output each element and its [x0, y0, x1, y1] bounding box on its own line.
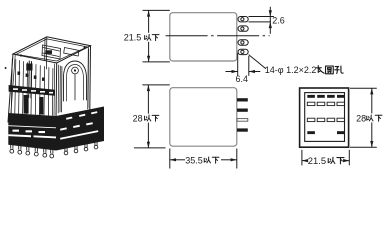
mid comb band (front face) — [9, 85, 55, 96]
pushbutton rod — [29, 61, 32, 98]
right face slanted label — [64, 48, 79, 57]
right face coil verticals — [60, 66, 62, 112]
dimension 6.4 (terminal length) — [226, 53, 261, 76]
svg-text:2.6: 2.6 — [272, 16, 285, 26]
svg-text:21.5: 21.5 — [308, 155, 326, 166]
top face detail cluster — [42, 45, 61, 59]
case front corner edge — [55, 63, 58, 118]
top view body — [170, 13, 237, 61]
moving block bars — [24, 95, 29, 114]
front view body — [170, 88, 237, 147]
base white separation lines and slots — [8, 111, 98, 139]
top view pins (4 stadium terminals) — [238, 17, 248, 22]
bottom pins right row — [65, 148, 67, 151]
center line (dash-dot) — [166, 35, 270, 37]
bottom view outer rect — [300, 88, 349, 147]
bottom view inner rect — [305, 93, 345, 142]
right face armature arch — [64, 61, 87, 101]
dimension 28以下 (bottom view height, right side) — [350, 88, 377, 147]
dimension 2.6 (terminal height) — [249, 7, 274, 34]
svg-text:21.5: 21.5 — [124, 33, 142, 43]
base band upper front — [8, 113, 56, 151]
front face springs (thin verticals) — [11, 59, 53, 116]
contact rivets — [18, 72, 21, 75]
dimension 28以下 (front view height) — [134, 85, 170, 148]
terminal slots — [307, 95, 344, 134]
dimension 35.5以下 (front view width) — [170, 149, 237, 169]
dimension 21.5以下 (bottom view width) — [302, 150, 349, 166]
case right edge — [89, 46, 92, 110]
svg-text:6.4: 6.4 — [236, 74, 249, 84]
front view pins — [237, 98, 248, 101]
svg-text:28: 28 — [356, 113, 366, 123]
svg-text:28: 28 — [133, 113, 143, 123]
leader 14-φ1.2×2.2长圆孔 — [249, 55, 266, 69]
dimension 21.5以下 (top view height) — [143, 10, 170, 62]
svg-text:35.5: 35.5 — [185, 156, 203, 166]
case top face — [13, 37, 91, 63]
bottom pins front row — [10, 142, 98, 158]
base band right side — [56, 107, 104, 151]
case left edge — [8, 54, 13, 122]
svg-text:14-φ 1.2×2.2: 14-φ 1.2×2.2 — [265, 65, 317, 75]
